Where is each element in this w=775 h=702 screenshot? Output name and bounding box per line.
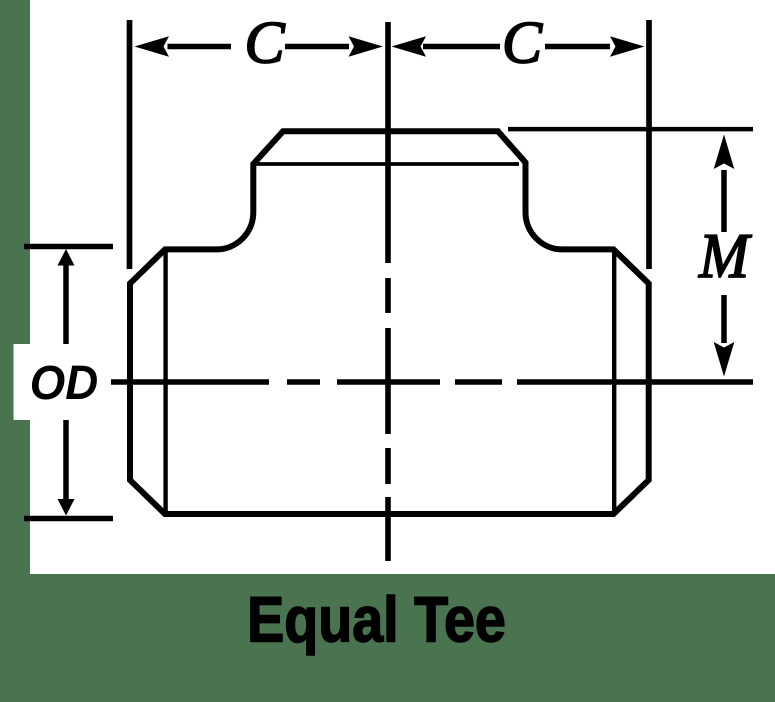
OD dimension shaft bbox=[63, 262, 69, 500]
C dimension left arrowhead left bbox=[135, 36, 170, 57]
OD dimension up arrowhead bbox=[58, 249, 75, 266]
svg-text:C: C bbox=[502, 10, 543, 76]
OD dimension bottom tick line bbox=[24, 516, 113, 522]
M dimension up arrowhead bbox=[714, 135, 735, 170]
horizontal centerline bbox=[111, 379, 753, 385]
svg-text:OD: OD bbox=[30, 356, 98, 409]
branch bevel line bbox=[255, 162, 519, 166]
tee body outline bbox=[130, 131, 649, 514]
vertical centerline bbox=[385, 22, 391, 561]
svg-text:Equal Tee: Equal Tee bbox=[247, 584, 506, 655]
M dimension shaft bbox=[721, 170, 727, 343]
C dimension right shaft bbox=[423, 44, 610, 50]
C dimension left arrowhead right bbox=[349, 36, 384, 57]
white drawing area bbox=[30, 0, 775, 574]
C dimension right arrowhead left bbox=[392, 36, 427, 57]
svg-text:C: C bbox=[244, 10, 285, 76]
C dimension right arrowhead right bbox=[610, 36, 645, 57]
right end bevel line bbox=[612, 251, 616, 512]
C dimension right extension line bbox=[646, 20, 652, 269]
left end bevel line bbox=[163, 251, 167, 512]
svg-text:M: M bbox=[698, 222, 752, 292]
M dimension down arrowhead bbox=[714, 342, 735, 377]
C dimension left shaft bbox=[168, 44, 350, 50]
OD label white box bbox=[14, 344, 109, 420]
M dimension top tick line bbox=[508, 127, 753, 132]
OD dimension down arrowhead bbox=[58, 499, 75, 516]
OD dimension top tick line bbox=[24, 244, 113, 250]
C dimension left extension line bbox=[127, 20, 133, 269]
